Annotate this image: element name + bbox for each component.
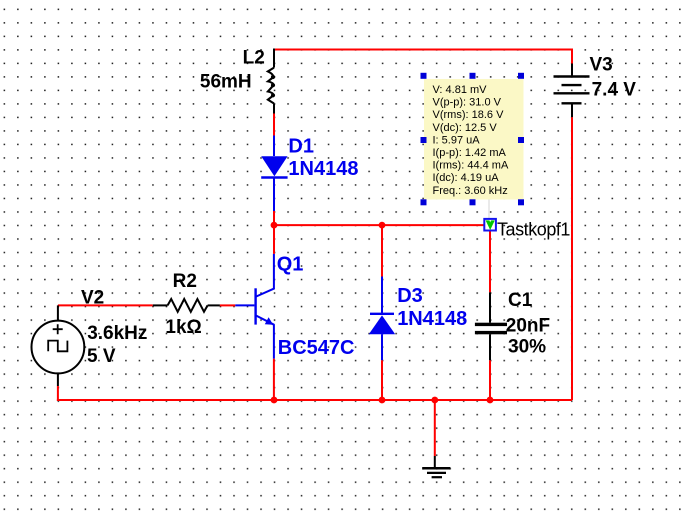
wire node to Q1 collector [273,225,275,254]
ground [422,456,450,477]
wire Q1 emitter to bottom rail [273,359,275,400]
selection handle bottom-mid [470,199,476,205]
measurement probe box [424,79,524,200]
probe Tastkopf1 [484,219,496,231]
transistor Q1 BC547C [235,254,274,359]
svg-text:Tastkopf1: Tastkopf1 [497,219,570,239]
wire L2 to D1 [273,114,275,136]
svg-text:V(dc): 12.5 V: V(dc): 12.5 V [433,122,498,134]
wire D3 to bottom rail [381,360,383,400]
wire ground stub [434,400,436,456]
svg-text:V(rms): 18.6 V: V(rms): 18.6 V [433,109,505,121]
selection handle top-left [421,73,427,79]
wire middle rail node to probe [274,224,484,226]
svg-text:7.4 V: 7.4 V [592,80,637,101]
wire V3 top lead [571,49,573,64]
svg-text:Q1: Q1 [277,254,304,276]
measurement box leader line [488,200,490,220]
selection handle top-mid [470,73,476,79]
selection handle bottom-right [518,199,524,205]
wire R2 to Q1 base [220,304,235,306]
svg-text:V(p-p): 31.0 V: V(p-p): 31.0 V [433,97,502,109]
wire D1 to node [273,211,275,225]
selection handle mid-right [518,137,524,143]
svg-text:D1: D1 [288,135,314,157]
wire C1 to bottom rail [489,360,491,400]
wire V3 to bottom rail [571,117,573,400]
node junction C1 bottom [487,397,494,404]
svg-text:I(p-p): 1.42 mA: I(p-p): 1.42 mA [433,147,507,159]
svg-text:I(rms): 44.4 mA: I(rms): 44.4 mA [433,160,509,172]
svg-text:V2: V2 [81,288,104,309]
svg-text:56mH: 56mH [200,72,252,93]
inductor L2 [268,49,275,114]
selection handle bottom-left [421,199,427,205]
wire V2 to R2 [58,304,153,306]
svg-text:1N4148: 1N4148 [397,308,467,330]
svg-text:I(dc): 4.19 uA: I(dc): 4.19 uA [433,172,500,184]
svg-text:I: 5.97 uA: I: 5.97 uA [433,134,481,146]
node junction D3 bottom [379,397,386,404]
capacitor C1 [475,292,507,360]
diode D3 1N4148 [369,277,395,361]
wire top rail from L2 to V3 [274,49,572,51]
node junction D1/Q1 [271,222,278,229]
diode D1 1N4148 [261,136,287,212]
svg-text:30%: 30% [508,337,546,358]
svg-text:D3: D3 [397,285,423,307]
wire node to D3 [381,225,383,276]
svg-text:BC547C: BC547C [278,337,355,359]
svg-text:1kΩ: 1kΩ [165,317,201,338]
svg-text:L2: L2 [243,48,265,69]
wire V2 bottom to rail [57,386,58,400]
wire bottom rail [57,399,572,401]
svg-text:20nF: 20nF [506,316,550,337]
svg-text:1N4148: 1N4148 [288,158,358,180]
wire probe to C1 [489,231,491,293]
svg-text:V: 4.81 mV: V: 4.81 mV [433,84,488,96]
node junction ground [431,397,438,404]
node junction Q1 emitter bottom [271,397,278,404]
svg-text:R2: R2 [173,271,197,292]
selection handle mid-left [421,137,427,143]
selection handle top-right [518,73,524,79]
svg-text:C1: C1 [508,290,533,311]
resistor R2 [153,299,220,312]
svg-text:3.6kHz: 3.6kHz [87,323,147,344]
svg-text:V3: V3 [590,55,613,76]
svg-text:5 V: 5 V [87,346,116,367]
source V2 square wave [32,305,85,386]
battery V3 [554,64,590,118]
node junction D3 top [379,222,386,229]
svg-text:Freq.: 3.60 kHz: Freq.: 3.60 kHz [433,185,508,197]
